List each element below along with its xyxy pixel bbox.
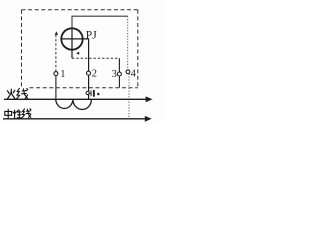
op meter element circle U (PJ) <box>61 28 82 49</box>
wire: node 3 vertical <box>118 58 120 87</box>
label huo (fire) glyph <box>7 89 15 99</box>
junction circle on node2 drop at live line <box>86 91 89 94</box>
label zhong (middle) glyph <box>5 109 12 118</box>
svg-text:2: 2 <box>92 69 97 80</box>
wire: dashed riser from node 1 up with arrow <box>55 35 57 72</box>
wire: node 2 branch from circle right side down to live wire <box>88 39 90 99</box>
label xian (wire) glyph small <box>22 109 31 118</box>
neutral wire (zhongxingxian) with arrow <box>3 118 145 120</box>
wire: dotted drop from node 4 to neutral line <box>128 74 130 119</box>
wire: node 1 drop to live wire <box>55 76 57 100</box>
arrow left below circle <box>76 52 79 55</box>
meter enclosure dashed box <box>22 10 138 88</box>
thin contact bar <box>91 90 92 96</box>
svg-text:PJ: PJ <box>86 30 97 42</box>
node 4 terminal circle <box>126 70 130 74</box>
label xian (wire) glyph <box>17 88 28 99</box>
current coil arcs under live wire <box>56 100 92 110</box>
svg-text:3: 3 <box>112 69 117 80</box>
svg-text:4: 4 <box>131 69 137 80</box>
wire: dotted drop from top loop to node 4 <box>127 16 129 70</box>
node 1 terminal circle <box>54 72 58 76</box>
node 3 terminal circle <box>117 72 121 76</box>
svg-text:1: 1 <box>60 69 65 80</box>
wire: horizontal cross line through circle to right corner <box>61 38 89 40</box>
tick from junction circle <box>89 92 90 94</box>
node 2 terminal circle <box>87 71 91 75</box>
wire: dashed horizontal tap to node 3 <box>72 57 119 59</box>
wire: voltage-coil top loop (circle top to terminal 4 corner) <box>72 16 128 28</box>
wire: vertical through circle <box>71 29 73 50</box>
thick contact bar <box>93 90 95 97</box>
live wire (huoxian) with arrow <box>4 98 146 100</box>
small dot right of bars <box>97 93 99 95</box>
arrow up at riser top <box>55 31 58 35</box>
wire: below circle to dashed tap <box>71 50 73 59</box>
label xing (nature) glyph <box>13 110 22 118</box>
